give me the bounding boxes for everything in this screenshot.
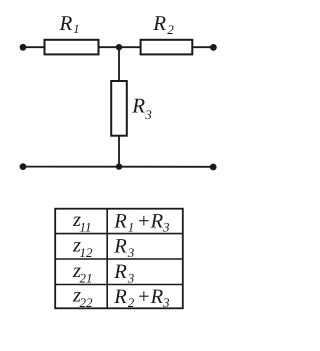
svg-text:R: R — [131, 94, 145, 118]
terminal dot: port 2 bottom — [210, 164, 217, 171]
svg-text:R: R — [113, 210, 127, 232]
terminal dot: port 1 top — [20, 44, 27, 51]
svg-text:R: R — [113, 286, 127, 308]
terminal dot: port 1 bottom — [20, 163, 27, 170]
table row divider 3 — [55, 284, 183, 286]
svg-text:3: 3 — [144, 107, 152, 122]
resistor R1 — [45, 40, 99, 55]
svg-text:2: 2 — [167, 22, 174, 37]
svg-text:11: 11 — [80, 220, 92, 235]
wire: R1 to node A and node A to R2 — [99, 46, 141, 48]
svg-text:22: 22 — [80, 295, 94, 310]
wire: R2 to top-right terminal — [192, 46, 213, 48]
wire: R3 down to bottom bus — [118, 136, 120, 167]
svg-text:3: 3 — [162, 295, 170, 310]
svg-text:+R: +R — [137, 286, 164, 308]
svg-text:3: 3 — [127, 270, 135, 285]
wire: node A down to R3 — [118, 47, 120, 81]
svg-text:+R: +R — [137, 210, 164, 232]
svg-text:3: 3 — [162, 220, 170, 235]
resistor R2 — [141, 40, 193, 55]
node A (top junction dot) — [116, 44, 122, 50]
svg-text:21: 21 — [80, 270, 93, 285]
svg-text:3: 3 — [127, 245, 135, 260]
table row divider 1 — [55, 233, 183, 235]
resistor R3 — [111, 81, 127, 136]
node B (bottom junction dot) — [116, 163, 122, 169]
svg-text:R: R — [113, 236, 127, 258]
wire: top-left terminal to R1 — [23, 46, 45, 48]
terminal dot: port 2 top — [210, 44, 217, 51]
table row divider 2 — [55, 258, 183, 260]
svg-text:2: 2 — [128, 295, 135, 310]
z-parameter table frame — [55, 209, 183, 309]
table column divider — [106, 209, 108, 309]
svg-text:12: 12 — [80, 245, 94, 260]
svg-text:R: R — [152, 11, 166, 35]
svg-text:1: 1 — [128, 220, 135, 235]
svg-text:R: R — [113, 261, 127, 283]
svg-text:R: R — [59, 11, 73, 35]
wire: bottom bus — [23, 166, 213, 168]
svg-text:1: 1 — [73, 22, 79, 36]
